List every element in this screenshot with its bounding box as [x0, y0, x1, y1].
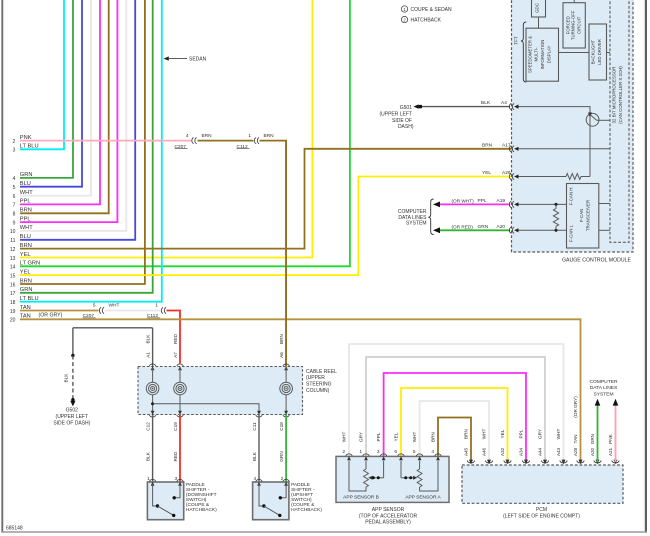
svg-text:APP SENSOR B: APP SENSOR B	[343, 495, 379, 501]
svg-text:F-CAN: F-CAN	[579, 209, 584, 222]
svg-text:TFT: TFT	[513, 36, 518, 45]
svg-text:HATCHBACK: HATCHBACK	[411, 18, 442, 24]
svg-text:GAUGE CONTROL MODULE: GAUGE CONTROL MODULE	[562, 258, 632, 264]
svg-text:SYSTEM: SYSTEM	[593, 392, 613, 398]
svg-text:A32: A32	[500, 447, 505, 456]
svg-text:DASH): DASH)	[398, 124, 414, 130]
svg-text:(OR GRY): (OR GRY)	[39, 313, 63, 319]
svg-text:F-CAN H: F-CAN H	[568, 188, 573, 206]
svg-text:(OR RED): (OR RED)	[452, 225, 474, 230]
svg-text:CABLE REEL: CABLE REEL	[306, 369, 337, 375]
svg-text:(UPPER: (UPPER	[306, 375, 325, 381]
svg-text:A46: A46	[481, 447, 486, 456]
svg-text:7: 7	[13, 203, 16, 209]
svg-text:C11: C11	[252, 422, 257, 431]
svg-text:18: 18	[10, 300, 16, 306]
svg-text:YEL: YEL	[500, 429, 505, 438]
svg-text:SEDAN: SEDAN	[189, 57, 207, 63]
svg-text:A20: A20	[497, 224, 506, 230]
svg-text:5: 5	[93, 303, 96, 309]
svg-text:YEL: YEL	[393, 432, 398, 441]
svg-text:TAN: TAN	[573, 434, 578, 443]
svg-text:PPL: PPL	[478, 198, 487, 204]
svg-text:A7: A7	[173, 352, 178, 358]
svg-text:A44: A44	[537, 447, 542, 456]
svg-text:BRN: BRN	[279, 334, 284, 344]
svg-text:A1: A1	[145, 352, 150, 358]
svg-text:A45: A45	[463, 447, 468, 456]
svg-text:4: 4	[186, 133, 189, 139]
svg-text:(UPPER LEFT: (UPPER LEFT	[379, 111, 412, 117]
svg-text:YEL: YEL	[482, 170, 491, 176]
svg-text:HATCHBACK): HATCHBACK)	[186, 507, 217, 513]
svg-text:2: 2	[342, 449, 345, 455]
svg-text:BRN: BRN	[482, 142, 493, 148]
svg-text:A6: A6	[279, 352, 284, 358]
svg-text:G502: G502	[66, 408, 78, 414]
svg-text:A19: A19	[497, 198, 506, 204]
svg-text:2: 2	[13, 139, 16, 145]
svg-text:GRN: GRN	[590, 434, 595, 444]
svg-text:COLUMN): COLUMN)	[306, 388, 330, 394]
svg-text:RED: RED	[173, 333, 178, 344]
svg-text:(OR WHT): (OR WHT)	[452, 199, 475, 204]
svg-text:(CAN CONTROLLER X 2CH): (CAN CONTROLLER X 2CH)	[618, 66, 623, 124]
svg-text:WHT: WHT	[109, 303, 120, 309]
svg-text:BLK: BLK	[252, 451, 257, 461]
svg-text:PEDAL ASSEMBLY): PEDAL ASSEMBLY)	[365, 520, 411, 526]
svg-text:PPL: PPL	[376, 432, 381, 441]
svg-text:1: 1	[248, 133, 251, 139]
svg-text:GRY: GRY	[537, 428, 542, 439]
svg-text:BLK: BLK	[145, 334, 150, 344]
svg-text:20: 20	[10, 318, 16, 324]
svg-text:TURNING-OFF: TURNING-OFF	[571, 10, 576, 40]
svg-text:32 BIT MICROPROCESSOR: 32 BIT MICROPROCESSOR	[611, 67, 616, 124]
svg-text:BLK: BLK	[481, 100, 491, 106]
svg-text:FORCED: FORCED	[565, 16, 570, 34]
svg-text:STEERING: STEERING	[306, 382, 332, 388]
svg-text:GRN: GRN	[279, 451, 284, 461]
svg-text:LED DRIVER: LED DRIVER	[597, 39, 602, 65]
svg-text:MULTI-: MULTI-	[534, 47, 539, 62]
svg-text:F-CAN L: F-CAN L	[568, 224, 573, 242]
svg-text:APP SENSOR A: APP SENSOR A	[405, 495, 441, 501]
svg-text:A34: A34	[518, 447, 523, 456]
svg-text:BRN: BRN	[430, 432, 435, 442]
svg-text:10: 10	[10, 229, 16, 235]
svg-text:BRN: BRN	[463, 429, 468, 439]
svg-text:PPL: PPL	[518, 429, 523, 438]
svg-text:17: 17	[10, 291, 16, 297]
svg-text:(TOP OF ACCELERATOR: (TOP OF ACCELERATOR	[359, 513, 418, 519]
svg-text:(OR GRY): (OR GRY)	[573, 396, 578, 418]
svg-text:BACKLIGHT: BACKLIGHT	[591, 39, 596, 64]
svg-text:APP SENSOR: APP SENSOR	[372, 507, 405, 513]
svg-text:GRN: GRN	[478, 224, 489, 230]
svg-text:G501: G501	[400, 105, 412, 111]
svg-text:WHT: WHT	[412, 432, 417, 443]
svg-text:4: 4	[431, 449, 434, 455]
svg-text:SPEEDOMETER &: SPEEDOMETER &	[528, 36, 533, 73]
svg-text:SIDE OF DASH): SIDE OF DASH)	[53, 420, 90, 426]
svg-text:A20: A20	[590, 447, 595, 456]
svg-text:A4: A4	[501, 100, 507, 106]
svg-text:6: 6	[13, 194, 16, 200]
svg-text:INFORMATION: INFORMATION	[540, 40, 545, 70]
svg-text:13: 13	[10, 256, 16, 262]
svg-text:SIDE OF: SIDE OF	[392, 118, 412, 124]
svg-text:RED: RED	[173, 451, 178, 462]
svg-text:GDC: GDC	[535, 3, 540, 13]
svg-text:TRANSCEIVER: TRANSCEIVER	[586, 200, 591, 231]
svg-text:GRY: GRY	[358, 431, 363, 442]
svg-text:19: 19	[10, 309, 16, 315]
svg-text:A43: A43	[556, 447, 561, 456]
svg-text:14: 14	[10, 265, 16, 271]
svg-text:12: 12	[10, 247, 16, 253]
svg-text:WHT: WHT	[556, 429, 561, 440]
svg-text:16: 16	[10, 282, 16, 288]
svg-text:5: 5	[13, 185, 16, 191]
svg-text:8: 8	[13, 212, 16, 218]
svg-text:PCM: PCM	[536, 507, 547, 513]
svg-text:WHT: WHT	[481, 429, 486, 440]
svg-text:SYSTEM: SYSTEM	[406, 221, 427, 227]
svg-text:COMPUTER: COMPUTER	[590, 379, 618, 385]
svg-text:COUPE & SEDAN: COUPE & SEDAN	[411, 7, 453, 13]
svg-text:BRN: BRN	[202, 133, 213, 139]
svg-text:BLK: BLK	[145, 451, 150, 461]
svg-text:(LEFT SIDE OF ENGINE COMPT): (LEFT SIDE OF ENGINE COMPT)	[503, 514, 580, 520]
svg-text:BLK: BLK	[64, 373, 69, 383]
svg-text:1: 1	[359, 449, 362, 455]
svg-text:3: 3	[13, 148, 16, 154]
svg-text:5: 5	[413, 449, 416, 455]
svg-text:15: 15	[10, 273, 16, 279]
svg-text:(UPPER LEFT: (UPPER LEFT	[56, 414, 89, 420]
svg-text:C18: C18	[279, 422, 284, 431]
svg-text:C12: C12	[145, 422, 150, 431]
svg-text:DISPLAY: DISPLAY	[546, 45, 551, 63]
svg-text:A28: A28	[573, 447, 578, 456]
svg-text:HATCHBACK): HATCHBACK)	[291, 507, 322, 513]
svg-text:9: 9	[13, 220, 16, 226]
svg-text:WHT: WHT	[341, 432, 346, 443]
svg-text:CIRCUIT: CIRCUIT	[576, 16, 581, 34]
svg-text:C19: C19	[173, 422, 178, 431]
svg-text:3: 3	[377, 449, 380, 455]
svg-text:4: 4	[13, 176, 16, 182]
svg-text:1: 1	[155, 303, 158, 309]
svg-text:PNK: PNK	[608, 433, 613, 444]
svg-text:685148: 685148	[6, 525, 23, 531]
svg-text:DATA LINES: DATA LINES	[590, 385, 618, 391]
svg-text:A21: A21	[608, 447, 613, 456]
svg-text:6: 6	[394, 449, 397, 455]
svg-text:BRN: BRN	[264, 133, 275, 139]
svg-text:11: 11	[10, 238, 15, 244]
